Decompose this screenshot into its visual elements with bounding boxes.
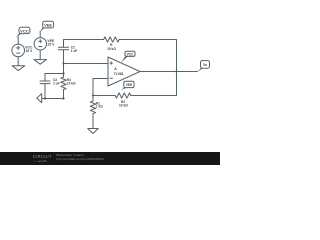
net flag Vo [198,61,210,72]
capacitor C3 1 uF [40,74,60,99]
wire [63,50,65,74]
svg-text:VCC: VCC [127,52,134,56]
svg-text:10 kΩ: 10 kΩ [119,103,128,107]
node output junction [175,70,177,72]
svg-text:Vo: Vo [203,63,207,67]
wire [17,37,19,44]
power flag VEE (right supply) [40,21,54,31]
wire [119,40,176,72]
svg-text:VEE: VEE [126,83,132,87]
wire [39,31,41,37]
svg-text:10 kΩ: 10 kΩ [107,47,116,51]
wire bottom rail [42,98,63,100]
wire op-amp output [140,71,198,73]
node inverting input junction [92,94,94,96]
svg-text:http://circuitlab.com/c/pna955: http://circuitlab.com/c/pna955449629 [57,157,105,161]
wire top feedback rail [64,40,104,48]
wire to op-amp - input [93,79,108,96]
wire to op-amp + input [64,63,109,65]
ground (VCC supply) [12,66,25,71]
footer bar [0,152,220,165]
resistor R1 1 kOhm (vertical) [90,96,103,129]
ground (R1) [88,129,99,134]
ground (rotated, input network) [37,94,42,103]
power flag VCC (op-amp) [121,51,135,63]
resistor R2 10 kOhm [115,93,131,107]
node (top of C3/R4) [62,72,64,74]
svg-text:VCC: VCC [20,28,29,33]
node (+ input tap) [62,62,64,64]
wire [93,95,115,97]
voltage source VCC 15 V [12,44,33,57]
wire feedback lower [131,72,177,96]
svg-text:10 kΩ: 10 kΩ [67,82,76,86]
ground (VEE supply) [34,60,47,65]
node [62,97,64,99]
svg-text:1 uF: 1 uF [71,49,78,53]
wire [39,50,41,60]
svg-text:15 V: 15 V [47,43,55,47]
svg-text:1 uF: 1 uF [53,82,60,86]
wire [17,57,19,66]
node [44,97,46,99]
power flag VEE (op-amp) [121,81,134,90]
resistor R4 10 kOhm (vertical) [61,74,76,99]
svg-text:TL081: TL081 [114,72,124,76]
op-amp A TL081 [108,57,140,86]
svg-text:1 kΩ: 1 kΩ [96,105,103,109]
svg-text:VEE: VEE [44,23,52,28]
wire rail [45,73,64,75]
svg-text:15 V: 15 V [25,49,33,53]
resistor R 10 kOhm (top) [104,37,120,51]
power flag VCC (left supply) [16,27,30,37]
capacitor C2 1 uF [58,46,77,54]
voltage source VEE 15 V [34,38,55,50]
svg-text:∼∼▸LAB: ∼∼▸LAB [33,159,47,163]
